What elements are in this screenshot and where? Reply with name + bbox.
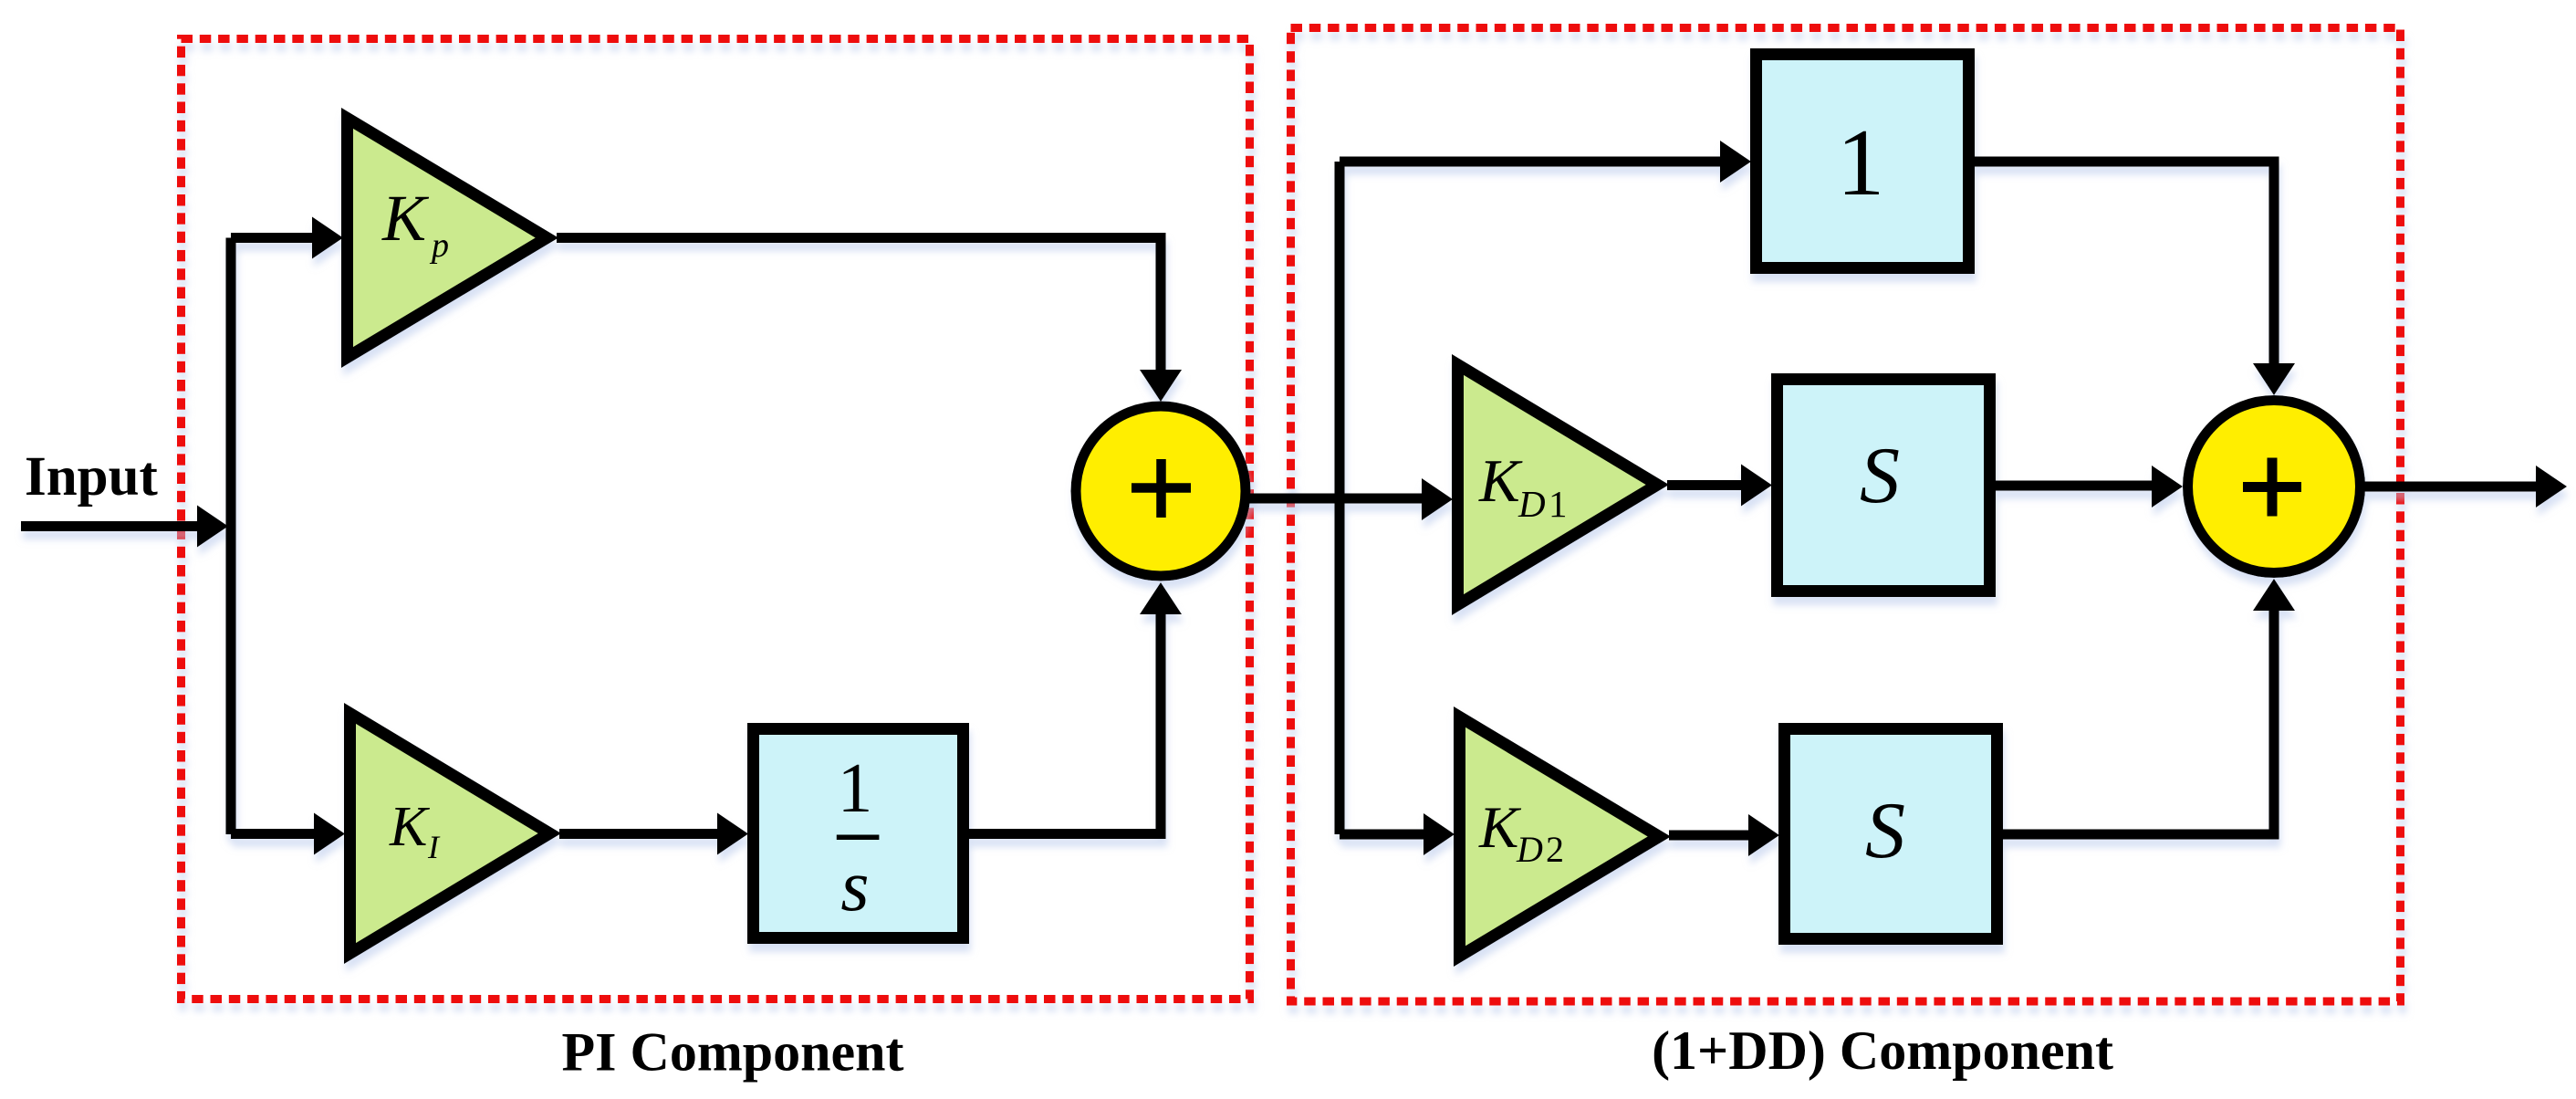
wire: input line [21,506,228,548]
svg-text:S: S [1860,432,1900,520]
svg-text:1: 1 [838,748,873,827]
svg-text:D: D [1517,483,1546,525]
wire: S block output to summing point 2 [1994,466,2183,508]
value label Kp [381,182,449,265]
wire: KD2 output to S block 2 [1669,814,1779,856]
block 1 (unity) [1757,55,1969,268]
wire: PI sum output to KD1 [1247,478,1453,520]
svg-text:S: S [1865,787,1905,875]
value label KD2 [1478,795,1564,870]
wire: branch to KI [231,813,345,855]
svg-text:K: K [1478,795,1522,861]
wire: branch to KD2 [1340,813,1455,855]
svg-text:(1+DD) Component: (1+DD) Component [1652,1020,2113,1081]
wire: output line [2363,466,2567,508]
svg-text:s: s [840,846,869,926]
gain KD2 (triangle) [1454,706,1671,967]
derivative block S (bottom) [1785,729,1997,939]
svg-text:K: K [381,182,430,255]
svg-text:D: D [1516,829,1543,870]
wire: branch to block 1 [1340,141,1751,183]
(1+DD) Component dashed boundary box [1291,28,2401,1002]
value label KI [389,796,441,865]
svg-text:2: 2 [1546,829,1564,870]
svg-text:K: K [1478,447,1523,515]
wire: block 1 output down to summing point 2 [1973,157,2295,396]
summing junction 2 ((1+DD)) [2188,401,2361,573]
wire: KD1 output to S block [1667,465,1772,507]
wire: S block 2 output up to summing point 2 [2001,579,2295,840]
value label KD1 [1478,447,1568,525]
svg-text:Input: Input [25,446,159,508]
value label 1/s (integrator) [837,748,880,926]
svg-text:p: p [429,226,449,265]
wire: Kp output to summing point [557,233,1182,402]
wire: KI output to integrator [559,813,748,855]
wire: branch to Kp [231,217,343,259]
gain KD1 (triangle) [1452,354,1669,615]
gain Kp (triangle) [341,108,558,368]
derivative block S (middle) [1778,380,1990,591]
svg-text:1: 1 [1837,109,1885,215]
svg-text:1: 1 [1549,483,1568,525]
PI Component dashed boundary box [182,39,1250,1000]
summing junction 1 (PI) [1076,406,1246,576]
wire: integrator output up to summing point [967,582,1182,839]
node: input branch vertical [226,238,236,835]
node: (1+DD) branch vertical [1335,162,1345,834]
svg-text:K: K [389,796,431,858]
gain KI (triangle) [344,703,561,964]
svg-text:I: I [427,829,441,865]
svg-text:PI Component: PI Component [561,1022,903,1083]
integrator block 1/s [754,729,964,938]
